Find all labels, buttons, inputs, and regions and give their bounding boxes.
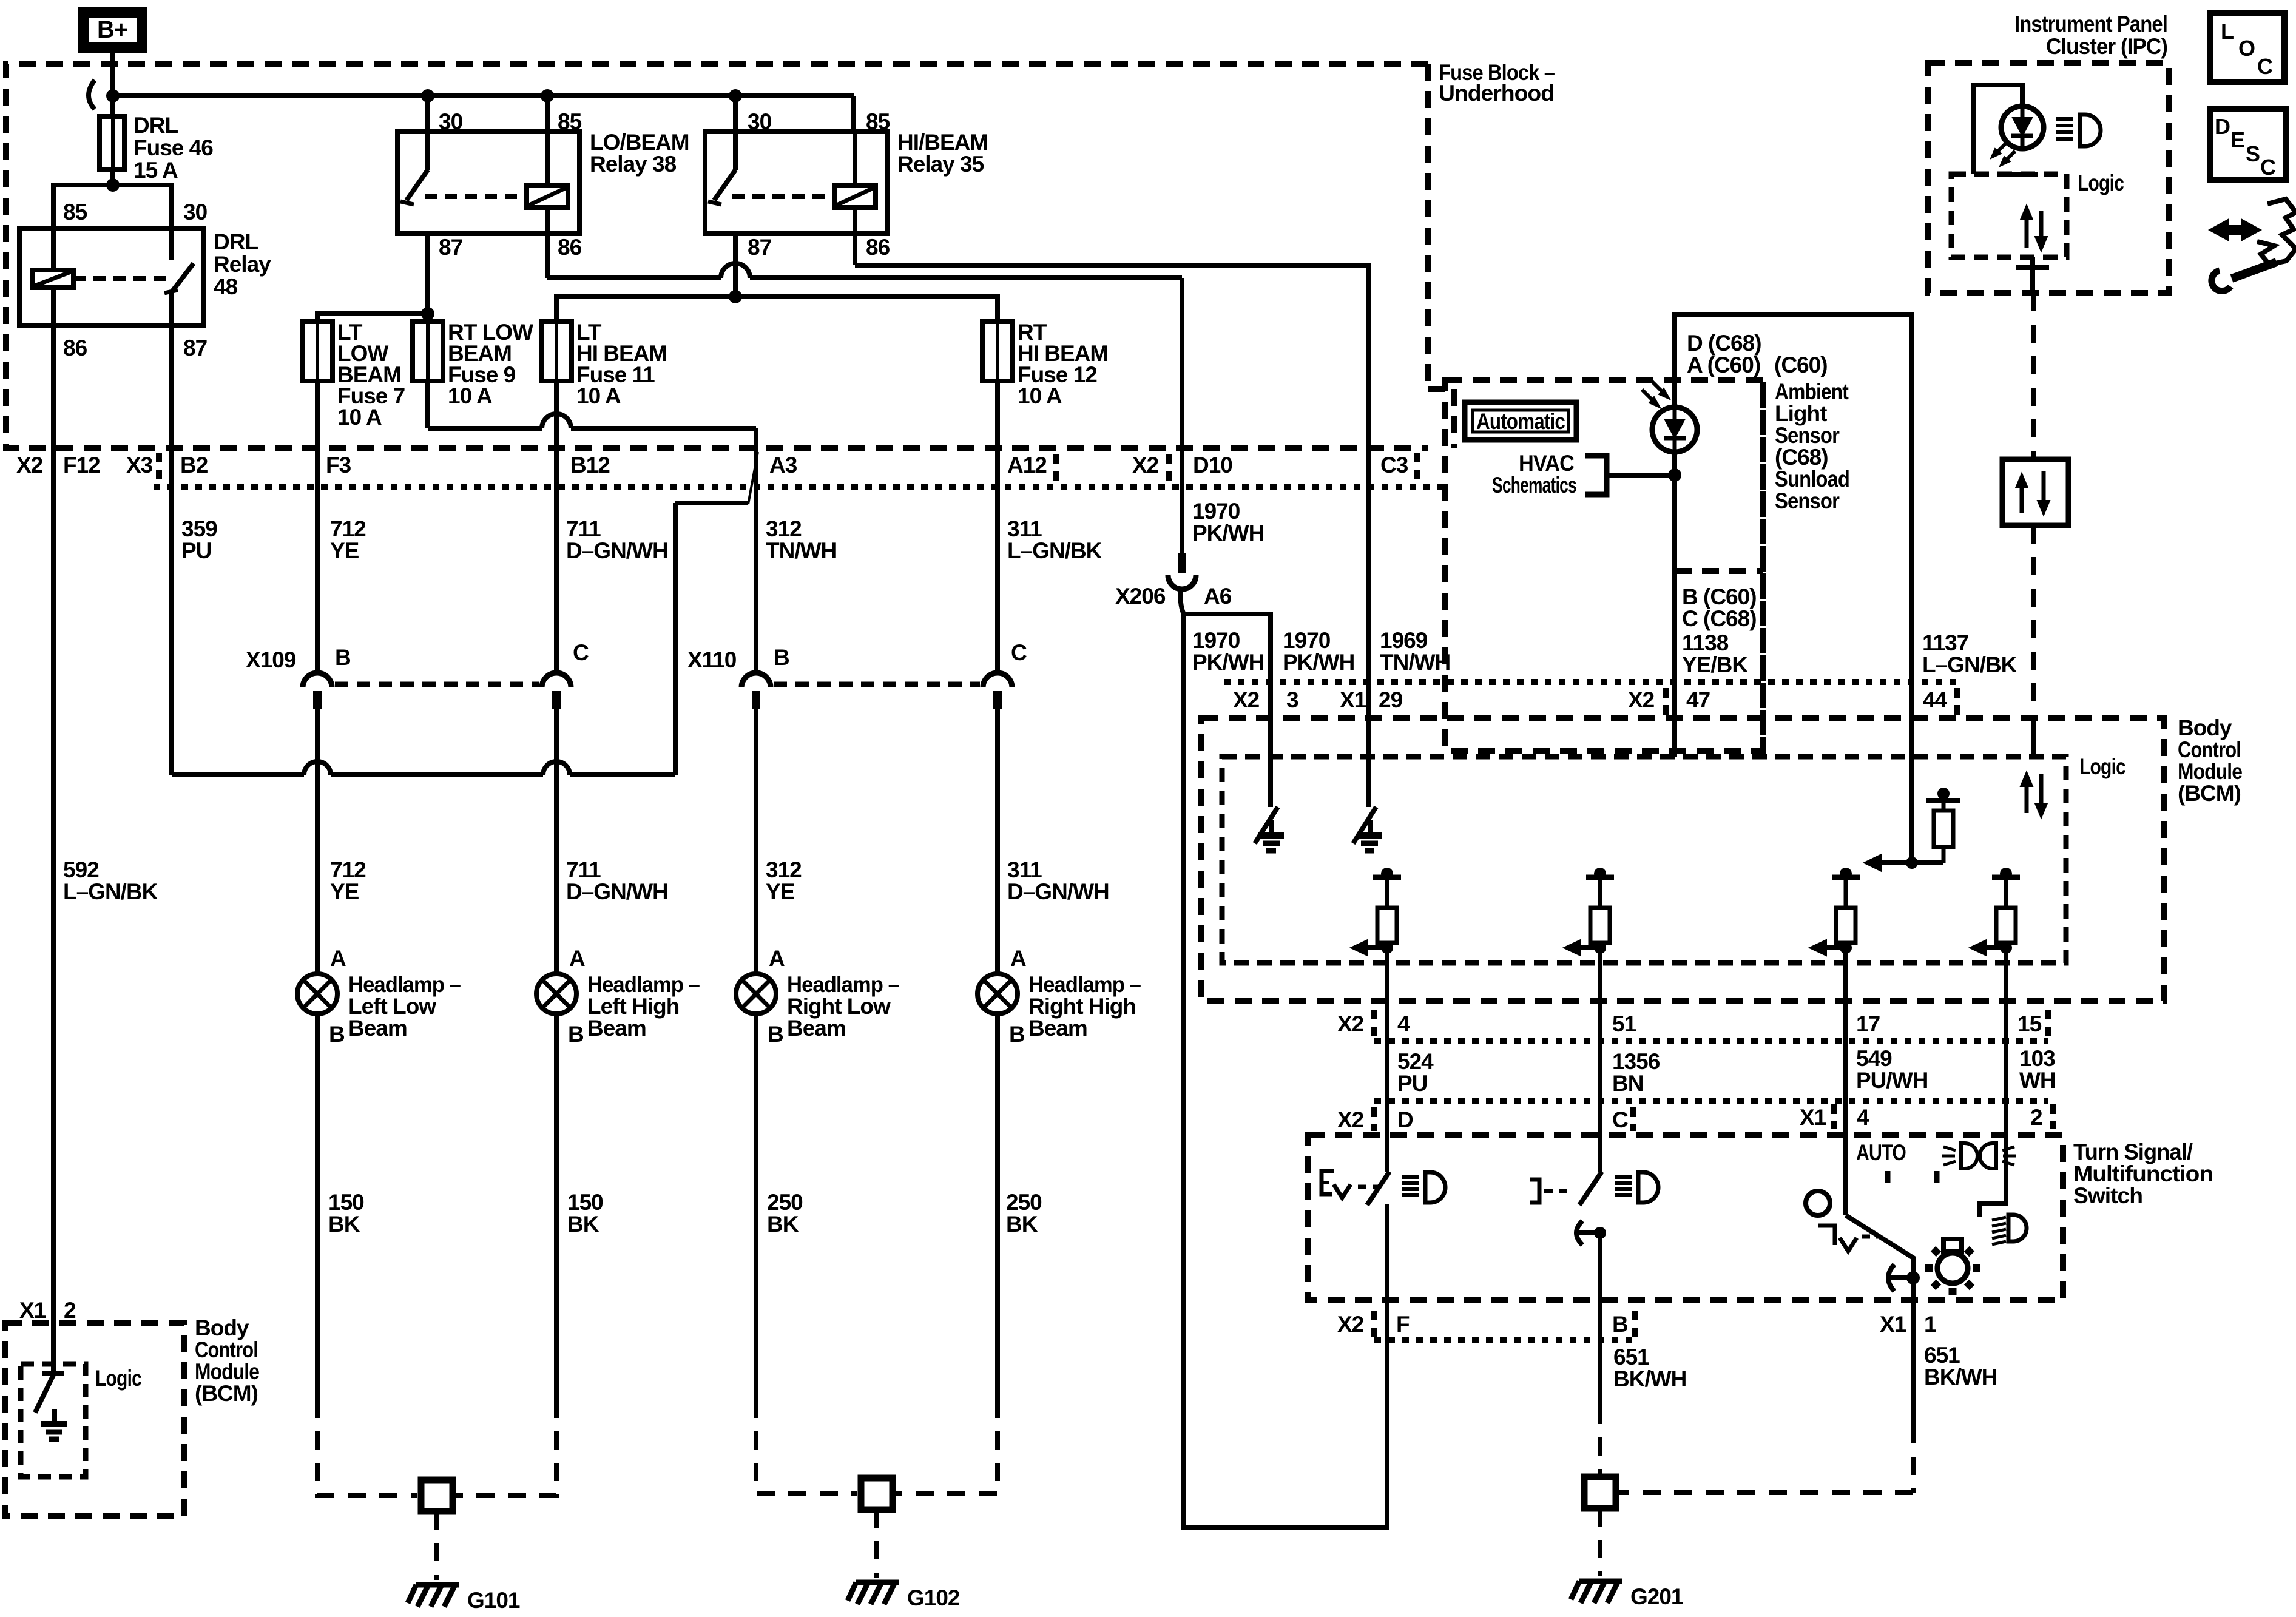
- svg-text:1969: 1969: [1380, 628, 1428, 653]
- svg-text:HVAC: HVAC: [1519, 451, 1574, 476]
- svg-text:X206: X206: [1115, 584, 1166, 609]
- svg-text:Relay 35: Relay 35: [897, 152, 984, 177]
- svg-text:D–GN/WH: D–GN/WH: [1007, 879, 1109, 904]
- relay K48 coil: [32, 270, 73, 288]
- svg-text:F: F: [1396, 1312, 1410, 1337]
- svg-text:DRL: DRL: [214, 229, 258, 254]
- svg-text:4: 4: [1857, 1105, 1869, 1130]
- connector X109 pin B: [303, 673, 332, 687]
- svg-text:(BCM): (BCM): [195, 1381, 258, 1406]
- svg-text:Headlamp –: Headlamp –: [787, 972, 899, 997]
- fuse F12 RT HI BEAM 10A: [982, 322, 1013, 381]
- svg-text:1356: 1356: [1612, 1049, 1660, 1074]
- svg-text:51: 51: [1612, 1011, 1636, 1036]
- BCM left logic dashed box: [21, 1364, 86, 1477]
- svg-text:Logic: Logic: [2079, 754, 2125, 779]
- wire sensor to BCM pin47: [1672, 452, 1677, 757]
- node bus to relay38 pin85: [541, 89, 554, 103]
- svg-text:Headlamp –: Headlamp –: [1028, 972, 1141, 997]
- svg-text:D–GN/WH: D–GN/WH: [566, 879, 668, 904]
- svg-text:150: 150: [328, 1190, 364, 1215]
- svg-text:30: 30: [183, 200, 208, 224]
- svg-text:1: 1: [1924, 1312, 1936, 1337]
- IPC dashed box: [1928, 63, 2169, 293]
- svg-text:10 A: 10 A: [1018, 383, 1062, 408]
- svg-text:Sensor: Sensor: [1775, 488, 1840, 513]
- svg-text:Light: Light: [1775, 401, 1827, 426]
- wire BCM pin15 output: [1979, 948, 2006, 1217]
- wire relay35 pin86 run: [853, 234, 857, 265]
- wire rotary to X1 1: [1911, 1278, 1916, 1425]
- BCM left switch to ground: [42, 1371, 64, 1376]
- svg-text:B2: B2: [180, 453, 208, 478]
- svg-text:Left High: Left High: [587, 994, 679, 1019]
- svg-text:X2: X2: [1337, 1107, 1364, 1132]
- svg-text:TN/WH: TN/WH: [766, 538, 836, 563]
- wire left low lamp ground: [315, 1014, 320, 1400]
- lamp headlamp right high beam: [977, 974, 1018, 1014]
- svg-text:B: B: [768, 1022, 783, 1047]
- svg-text:86: 86: [558, 235, 582, 260]
- wire relay38 pin86 to D10 with hop over relay35 pin87: [547, 275, 721, 280]
- svg-text:C: C: [1612, 1107, 1628, 1132]
- svg-text:Control: Control: [2178, 737, 2241, 762]
- DESC reference box: [2210, 109, 2286, 180]
- svg-text:Right High: Right High: [1028, 994, 1136, 1019]
- LOC reference box: [2210, 13, 2284, 82]
- relay K48 coil stub top: [51, 228, 56, 270]
- svg-text:A: A: [330, 946, 346, 971]
- svg-text:87: 87: [439, 235, 462, 260]
- IPC logic dashed box: [1951, 174, 2067, 257]
- wire splice to G102: [874, 1510, 879, 1578]
- svg-text:(C68): (C68): [1775, 445, 1828, 470]
- wire BCM pin17 output: [1843, 948, 1848, 1215]
- wire BCM pin51 output: [1598, 948, 1602, 1172]
- service icon wrench: [2232, 262, 2277, 279]
- svg-text:B12: B12: [570, 453, 610, 478]
- relay K48 DRL box: [19, 228, 203, 326]
- BCM input switch to ground pin3: [1268, 718, 1273, 807]
- IPC indicator LED: [2001, 106, 2044, 149]
- svg-text:B: B: [774, 645, 789, 670]
- wire relay35 pin86 to C3: [855, 265, 1369, 682]
- wire 651 right dashed to splice: [1911, 1425, 1916, 1493]
- svg-text:15 A: 15 A: [133, 158, 178, 183]
- svg-text:85: 85: [63, 200, 87, 224]
- wire DRL relay pin87 359 PU drop: [169, 326, 174, 775]
- splice pack to G102 dashed runs: [756, 1400, 857, 1494]
- svg-text:Headlamp –: Headlamp –: [587, 972, 700, 997]
- connector X110 pin C: [983, 673, 1012, 687]
- svg-text:X2: X2: [1337, 1011, 1364, 1036]
- svg-text:F3: F3: [326, 453, 351, 478]
- svg-text:BN: BN: [1612, 1071, 1643, 1096]
- relay K48 pin87 inner stub: [169, 292, 174, 326]
- svg-text:PU: PU: [181, 538, 211, 563]
- svg-text:Beam: Beam: [348, 1016, 407, 1041]
- svg-text:Right Low: Right Low: [787, 994, 891, 1019]
- relay K35 pin30 stub: [733, 132, 738, 170]
- svg-text:Underhood: Underhood: [1439, 81, 1554, 106]
- turn signal multifunction switch dashed box: [1308, 1135, 2063, 1300]
- svg-text:A: A: [1010, 946, 1026, 971]
- svg-text:DRL: DRL: [133, 113, 178, 138]
- wire thin jog to A3 pin: [748, 452, 758, 504]
- fuse block connector row dotted line: [154, 484, 1450, 490]
- headlamp switch icon park: [1322, 1171, 1334, 1194]
- wire serial data into logic: [2031, 718, 2036, 757]
- svg-text:87: 87: [748, 235, 771, 260]
- Automatic box: [1465, 402, 1576, 440]
- svg-text:44: 44: [1923, 687, 1948, 712]
- svg-text:Body: Body: [2178, 715, 2232, 740]
- splice left headlamps ground: [421, 1480, 453, 1511]
- photodiode ambient light sensor: [1652, 407, 1697, 452]
- relay K38 dashed actuator link: [425, 194, 527, 199]
- svg-text:A3: A3: [769, 453, 797, 478]
- IPC low beam indicator icon: [2056, 117, 2073, 121]
- wire fuse12 output to X110 C: [995, 381, 1000, 673]
- B+ battery feed terminal: [78, 7, 147, 53]
- bus hook mark: [89, 80, 95, 109]
- rotary switch dashes: [1862, 1235, 1881, 1239]
- svg-text:Automatic: Automatic: [1476, 409, 1565, 434]
- service icon arrow: [2223, 225, 2246, 235]
- relay K38 switch blade: [407, 170, 428, 200]
- TS switch upper dotted line: [1374, 1098, 2048, 1104]
- ground G201: [1579, 1579, 1622, 1584]
- svg-text:B (C60): B (C60): [1682, 584, 1757, 609]
- relay K35 HI/BEAM box: [705, 132, 887, 234]
- wire splice to G201: [1598, 1508, 1602, 1576]
- BCM pin44 input pullup: [1909, 757, 1914, 863]
- node low beam fuse feed: [421, 307, 434, 320]
- svg-text:BK: BK: [328, 1212, 360, 1237]
- BCM driver output pin15: [2000, 868, 2012, 880]
- svg-text:Headlamp –: Headlamp –: [348, 972, 461, 997]
- svg-text:D–GN/WH: D–GN/WH: [566, 538, 668, 563]
- svg-text:LO/BEAM: LO/BEAM: [590, 130, 689, 155]
- svg-text:10 A: 10 A: [337, 405, 382, 430]
- relay K35 switch blade: [714, 170, 735, 200]
- wire X206 down run: [1181, 589, 1184, 613]
- svg-text:A12: A12: [1007, 453, 1047, 478]
- wire B+ down to bus: [110, 53, 115, 116]
- svg-text:47: 47: [1686, 687, 1710, 712]
- node fuse46 output: [106, 178, 120, 192]
- wire relay38 pin86 run: [545, 234, 550, 278]
- svg-text:TN/WH: TN/WH: [1380, 650, 1450, 675]
- node bus to relay35 pin30: [729, 89, 742, 103]
- wire X206 branch to BCM X2-3: [1183, 614, 1271, 807]
- svg-text:B: B: [329, 1022, 345, 1047]
- bracket icon sw2: [1530, 1180, 1539, 1203]
- wire relay35 pin87 to hi beam fuse feed: [733, 234, 738, 297]
- svg-text:A: A: [569, 946, 585, 971]
- svg-text:Control: Control: [195, 1337, 258, 1362]
- wire fuse46 to DRL relay plate: [110, 170, 115, 185]
- svg-text:B: B: [335, 645, 351, 670]
- svg-text:Left Low: Left Low: [348, 994, 436, 1019]
- svg-text:Logic: Logic: [2078, 170, 2124, 195]
- svg-text:B: B: [568, 1022, 584, 1047]
- svg-text:1970: 1970: [1192, 499, 1240, 524]
- svg-text:PK/WH: PK/WH: [1283, 650, 1354, 675]
- svg-text:3: 3: [1286, 687, 1298, 712]
- svg-text:X2: X2: [1233, 687, 1260, 712]
- wire right high lamp ground: [995, 1014, 1000, 1400]
- svg-text:BK: BK: [1006, 1212, 1038, 1237]
- svg-text:1137: 1137: [1922, 630, 1968, 655]
- IPC LED loop wire: [1973, 85, 2022, 174]
- svg-text:HI/BEAM: HI/BEAM: [897, 130, 988, 155]
- svg-text:2: 2: [2030, 1105, 2042, 1130]
- wire 651 left dashed to splice: [1598, 1406, 1602, 1477]
- ground G102: [856, 1580, 899, 1585]
- svg-text:X3: X3: [126, 453, 153, 478]
- svg-text:AUTO: AUTO: [1856, 1140, 1906, 1165]
- svg-text:B: B: [1612, 1312, 1628, 1337]
- svg-text:29: 29: [1379, 687, 1403, 712]
- connector X110 dashed link: [774, 682, 980, 687]
- wire feed into fuse9: [425, 314, 430, 322]
- relay K35 coil stubs: [853, 132, 857, 186]
- wire LED to logic tick: [2007, 172, 2038, 177]
- svg-text:Beam: Beam: [787, 1016, 846, 1041]
- HVAC bracket link: [1585, 456, 1607, 495]
- svg-text:S: S: [2246, 141, 2260, 166]
- svg-text:86: 86: [866, 235, 890, 260]
- svg-text:BK: BK: [567, 1212, 599, 1237]
- switch blade headlamp on: [1367, 1172, 1389, 1205]
- svg-text:87: 87: [183, 336, 207, 360]
- svg-text:2: 2: [64, 1298, 76, 1323]
- wire X109 B to left low headlamp: [315, 709, 320, 974]
- service icon outline: [2257, 199, 2296, 265]
- svg-text:Sensor: Sensor: [1775, 423, 1840, 448]
- wire sensor top loop to 1137 column: [1675, 314, 1912, 863]
- wire DRL relay pin86 to BCM X1-2: [51, 326, 56, 1374]
- relay K48 coil stub bottom: [51, 288, 56, 326]
- svg-text:C: C: [2257, 54, 2273, 79]
- svg-text:PU: PU: [1397, 1071, 1427, 1096]
- svg-text:X1: X1: [1800, 1105, 1826, 1130]
- connector X110 pin B: [741, 673, 771, 687]
- wire left high lamp ground: [554, 1014, 559, 1400]
- connector X109 pin C: [542, 673, 571, 687]
- svg-text:549: 549: [1856, 1046, 1892, 1071]
- wire right low lamp ground: [754, 1014, 758, 1400]
- wire X110 B to right low headlamp: [754, 709, 758, 974]
- svg-text:X1: X1: [1880, 1312, 1906, 1337]
- svg-text:L–GN/BK: L–GN/BK: [1007, 538, 1102, 563]
- wire 359 PU cross link with hops: [172, 772, 304, 777]
- svg-text:X109: X109: [246, 647, 296, 672]
- wire bus to relay38 pin85: [545, 96, 550, 132]
- svg-text:(BCM): (BCM): [2178, 781, 2241, 806]
- svg-text:C3: C3: [1380, 453, 1408, 478]
- headlamp icon sw2: [1615, 1175, 1632, 1179]
- svg-text:B: B: [1009, 1022, 1025, 1047]
- wire logic box down stub: [2030, 257, 2035, 293]
- svg-text:712: 712: [330, 857, 366, 882]
- wire splice to G101: [434, 1511, 439, 1580]
- svg-text:BK/WH: BK/WH: [1613, 1366, 1686, 1391]
- switch blade auto defeat: [1579, 1172, 1602, 1205]
- svg-text:Body: Body: [195, 1315, 249, 1340]
- rotary switch wiper blade: [1846, 1215, 1913, 1278]
- svg-text:PK/WH: PK/WH: [1192, 521, 1264, 545]
- TS lower dotted line: [1374, 1337, 1635, 1343]
- svg-text:359: 359: [181, 516, 217, 541]
- svg-text:Sunload: Sunload: [1775, 467, 1849, 491]
- svg-text:L–GN/BK: L–GN/BK: [1922, 652, 2017, 677]
- wire relay38 pin87 to low beam fuse feed: [425, 234, 430, 314]
- svg-text:651: 651: [1613, 1345, 1649, 1369]
- wire fuse11 output to X109 C: [554, 381, 559, 673]
- wire X109 C to left high headlamp: [554, 709, 559, 974]
- BCM driver output pin51: [1594, 868, 1606, 880]
- BCM left dashed box: [5, 1323, 184, 1516]
- wire fuse9 output jog to A3 with hop over fuse11 wire: [425, 381, 430, 428]
- BCM logic updown arrows: [2025, 779, 2029, 813]
- svg-text:103: 103: [2019, 1046, 2055, 1071]
- gear icon rotary detent: [1937, 1253, 1968, 1283]
- relay K48 pin30 stub: [169, 228, 174, 260]
- svg-text:X1: X1: [1340, 687, 1366, 712]
- relay K35 coil: [834, 186, 876, 208]
- relay K38 LO/BEAM box: [397, 132, 579, 234]
- svg-text:Beam: Beam: [587, 1016, 646, 1041]
- svg-text:G201: G201: [1630, 1584, 1683, 1609]
- svg-text:C: C: [1011, 640, 1027, 665]
- headlamp switch dashes sw1: [1358, 1185, 1381, 1189]
- svg-text:312: 312: [766, 857, 802, 882]
- svg-text:D: D: [2215, 114, 2230, 139]
- svg-text:A (C60): A (C60): [1687, 353, 1760, 377]
- rotary contact hook: [1888, 1264, 1894, 1291]
- BCM driver output pin4: [1381, 868, 1393, 880]
- svg-text:Logic: Logic: [95, 1366, 141, 1391]
- wire C3 to BCM X1-29: [1366, 682, 1371, 807]
- svg-text:X2: X2: [1628, 687, 1655, 712]
- svg-text:O: O: [2238, 36, 2255, 61]
- svg-text:312: 312: [766, 516, 802, 541]
- wire D10 drop: [1180, 278, 1184, 556]
- svg-text:4: 4: [1397, 1011, 1410, 1036]
- relay K38 coil stubs: [545, 132, 550, 186]
- svg-text:G102: G102: [907, 1585, 960, 1610]
- sensor light arrows: [1642, 390, 1656, 404]
- fuse F11 LT HI BEAM 10A: [541, 322, 572, 381]
- svg-text:250: 250: [1006, 1190, 1042, 1215]
- relay K38 coil: [527, 186, 568, 208]
- park position icon: [1818, 1226, 1835, 1245]
- wire bus corner to relay35 pin85: [851, 96, 856, 132]
- relay K38 pin30 stub: [425, 132, 430, 170]
- svg-text:250: 250: [767, 1190, 803, 1215]
- svg-text:Multifunction: Multifunction: [2073, 1161, 2213, 1186]
- headlamp on icon right: [1992, 1217, 2006, 1220]
- svg-text:A: A: [769, 946, 785, 971]
- node HVAC tap on sensor wire: [1668, 468, 1681, 482]
- relay K48 switch blade: [172, 263, 194, 292]
- fuse block - underhood dashed outline: [6, 64, 1428, 448]
- svg-text:PK/WH: PK/WH: [1192, 650, 1264, 675]
- flash to pass icon: [1943, 1147, 1956, 1150]
- svg-text:651: 651: [1924, 1343, 1960, 1368]
- svg-text:BK/WH: BK/WH: [1924, 1365, 1997, 1389]
- detent marks: [1885, 1171, 1891, 1183]
- node rotary wiper contact: [1906, 1271, 1920, 1284]
- wire bus to relay35 pin30: [733, 96, 738, 132]
- svg-text:C: C: [2260, 155, 2276, 180]
- node bus to relay38 pin30: [421, 89, 434, 103]
- svg-text:Module: Module: [195, 1359, 259, 1384]
- svg-text:Relay: Relay: [214, 252, 271, 277]
- BCM lower dotted line: [1374, 1038, 2048, 1044]
- off position circle: [1806, 1191, 1830, 1215]
- svg-text:C: C: [573, 640, 589, 665]
- svg-text:Turn Signal/: Turn Signal/: [2073, 1139, 2193, 1164]
- svg-text:BK: BK: [767, 1212, 799, 1237]
- svg-text:(C60): (C60): [1774, 353, 1828, 377]
- svg-text:YE: YE: [330, 538, 359, 563]
- wire main feed bus: [113, 93, 854, 98]
- svg-text:Module: Module: [2178, 759, 2242, 784]
- svg-text:592: 592: [63, 857, 99, 882]
- svg-text:311: 311: [1007, 857, 1042, 882]
- BCM driver output pin17: [1840, 868, 1852, 880]
- svg-text:B+: B+: [97, 16, 127, 43]
- svg-text:A6: A6: [1204, 584, 1232, 609]
- connector X206: [1178, 553, 1186, 573]
- svg-text:PU/WH: PU/WH: [1856, 1068, 1928, 1093]
- svg-text:C (C68): C (C68): [1682, 606, 1757, 631]
- svg-text:YE: YE: [330, 879, 359, 904]
- svg-text:Ambient: Ambient: [1775, 379, 1849, 404]
- svg-text:711: 711: [566, 516, 601, 541]
- headlamp icon sw1: [1402, 1175, 1419, 1179]
- lamp headlamp left high beam: [536, 974, 576, 1014]
- svg-text:YE: YE: [766, 879, 795, 904]
- wire low beam fuse feed to fuse7: [317, 314, 428, 322]
- IPC LED emit arrows: [1994, 143, 2006, 155]
- svg-text:311: 311: [1007, 516, 1042, 541]
- wire hi beam fuse feed rail: [556, 297, 998, 322]
- svg-text:X2: X2: [1337, 1312, 1364, 1337]
- svg-text:F12: F12: [63, 453, 100, 478]
- svg-text:YE/BK: YE/BK: [1682, 652, 1748, 677]
- svg-text:Instrument Panel: Instrument Panel: [2014, 12, 2167, 36]
- splice 651 to G201: [1584, 1477, 1616, 1508]
- wire IPC to serial data box dashed: [2031, 293, 2036, 459]
- svg-text:Cluster (IPC): Cluster (IPC): [2046, 34, 2167, 59]
- svg-text:E: E: [2230, 127, 2244, 152]
- serial data updown box: [2002, 459, 2068, 525]
- relay K48 dashed actuator link: [73, 276, 169, 281]
- node hi beam fuse feed: [729, 290, 742, 303]
- wire DRL relay top plate: [53, 185, 172, 228]
- svg-text:10 A: 10 A: [448, 383, 492, 408]
- svg-text:150: 150: [567, 1190, 603, 1215]
- svg-text:15: 15: [2017, 1011, 2042, 1036]
- svg-text:10 A: 10 A: [576, 383, 621, 408]
- svg-text:Fuse 46: Fuse 46: [133, 135, 213, 160]
- svg-text:D (C68): D (C68): [1687, 331, 1761, 356]
- BCM dashed box: [1201, 718, 2164, 1001]
